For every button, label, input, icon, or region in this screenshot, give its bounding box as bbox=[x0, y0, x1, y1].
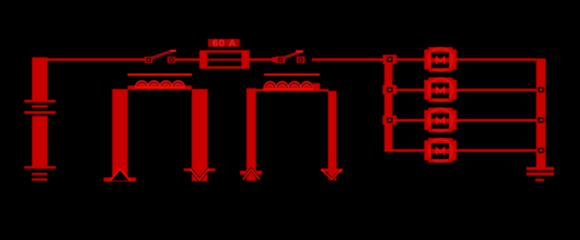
svg-text:60 A: 60 A bbox=[212, 39, 236, 50]
terminal on bus branch 1 bbox=[383, 55, 397, 64]
terminal right bus branch 4 bbox=[538, 148, 544, 153]
ground GND2 (right) bbox=[526, 167, 554, 181]
switch S1 bbox=[144, 50, 176, 63]
motor M1 bbox=[424, 47, 456, 72]
battery B1 plate long bottom bbox=[24, 111, 56, 114]
arrow down (current direction, path 2 right leg) bbox=[321, 169, 343, 180]
label 60 A bbox=[208, 39, 240, 50]
motor M3 bbox=[424, 108, 456, 133]
current path 2 core line bbox=[264, 74, 320, 76]
coil L2 end block bbox=[313, 83, 320, 89]
current path 1 base bar (left ground plate) bbox=[104, 177, 137, 181]
arrow up (current direction, left leg) bbox=[110, 169, 129, 181]
wire branch 4 bbox=[385, 149, 536, 152]
current path 1 top bar bbox=[128, 86, 192, 90]
coil L1 (4 scallops) bbox=[136, 81, 185, 87]
terminal right bus branch 2 bbox=[538, 87, 544, 92]
terminal right bus branch 3 bbox=[538, 117, 544, 122]
current path 1 left leg bbox=[112, 89, 128, 178]
wire branch 2 bbox=[393, 89, 537, 92]
battery B1 plate long top bbox=[24, 100, 56, 103]
current path 2 right leg bbox=[328, 91, 337, 181]
battery B1 positive bar bbox=[32, 57, 48, 100]
left bus (node) bbox=[384, 56, 392, 152]
current path 2 left leg bbox=[247, 88, 257, 181]
motor M2 bbox=[424, 77, 456, 102]
arrow down (current direction, right leg) bbox=[184, 168, 216, 180]
terminal on bus branch 2 bbox=[383, 85, 397, 94]
wire S2 to left bus bbox=[312, 58, 385, 61]
ground GND1 (battery) bbox=[24, 166, 56, 181]
motor M4 bbox=[424, 138, 456, 163]
wire battery to switch S1 bbox=[46, 58, 145, 61]
battery B1 plate short bbox=[32, 105, 48, 108]
wire S1 to fuse F1 bbox=[175, 58, 201, 61]
terminal on bus branch 3 bbox=[383, 115, 397, 124]
right bus bbox=[536, 58, 546, 167]
wire branch 1 bbox=[393, 58, 537, 61]
arrow up (current direction, path 2 left leg) bbox=[240, 169, 262, 179]
fuse F1 60A bbox=[201, 52, 249, 68]
current path 2 top bar bbox=[256, 89, 329, 92]
current path 1 right leg bbox=[192, 89, 208, 181]
wire branch 3 bbox=[393, 119, 537, 122]
battery B1 negative bar bbox=[32, 116, 48, 167]
coil L2 (4 scallops) bbox=[264, 82, 313, 89]
wire F1 to switch S2 bbox=[248, 58, 272, 61]
current path 1 core line bbox=[128, 74, 192, 76]
switch S2 bbox=[272, 50, 305, 63]
